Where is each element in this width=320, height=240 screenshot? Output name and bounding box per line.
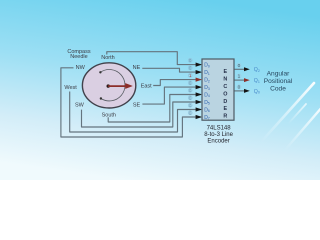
svg-text:O: O <box>223 91 227 97</box>
svg-text:D3: D3 <box>204 85 210 91</box>
svg-text:SW: SW <box>75 103 85 109</box>
svg-text:N: N <box>223 77 227 83</box>
svg-text:8-to-3 Line: 8-to-3 Line <box>204 132 233 138</box>
svg-text:Needle: Needle <box>70 54 87 60</box>
svg-text:74LS148: 74LS148 <box>207 125 232 131</box>
svg-text:SE: SE <box>133 102 141 108</box>
svg-text:Angular: Angular <box>267 70 291 77</box>
svg-text:0: 0 <box>238 63 241 69</box>
svg-text:D6: D6 <box>204 107 210 113</box>
svg-text:West: West <box>64 85 77 91</box>
svg-text:D7: D7 <box>204 115 210 121</box>
svg-text:Q0: Q0 <box>254 89 260 95</box>
svg-text:D: D <box>223 99 227 105</box>
svg-text:South: South <box>102 113 116 119</box>
svg-text:D0: D0 <box>204 63 210 69</box>
svg-text:Q1: Q1 <box>254 78 260 84</box>
svg-text:NW: NW <box>76 65 86 71</box>
svg-text:Code: Code <box>270 85 286 92</box>
svg-text:Q2: Q2 <box>254 67 260 73</box>
svg-text:D1: D1 <box>204 70 210 76</box>
svg-text:Positional: Positional <box>264 78 293 85</box>
svg-text:C: C <box>223 84 227 90</box>
svg-text:Encoder: Encoder <box>207 139 229 145</box>
svg-text:R: R <box>223 114 227 120</box>
svg-text:E: E <box>223 69 227 75</box>
svg-text:North: North <box>101 55 114 61</box>
svg-text:NE: NE <box>133 65 141 71</box>
svg-text:D2: D2 <box>204 78 210 84</box>
svg-text:D4: D4 <box>204 92 210 98</box>
svg-text:1: 1 <box>238 74 241 80</box>
svg-text:D5: D5 <box>204 100 210 106</box>
svg-text:E: E <box>223 106 227 112</box>
svg-text:0: 0 <box>238 85 241 91</box>
svg-text:East: East <box>141 84 152 90</box>
